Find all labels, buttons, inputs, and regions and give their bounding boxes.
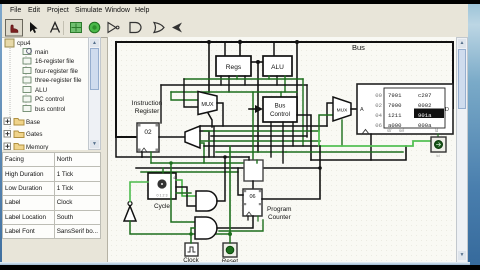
svg-text:0 1 2 3: 0 1 2 3 <box>157 194 168 198</box>
svg-text:str: str <box>387 128 392 133</box>
svg-text:04: 04 <box>375 112 382 119</box>
svg-text:ld: ld <box>436 153 439 158</box>
folder icons <box>14 119 24 151</box>
edit arrow <box>30 22 38 33</box>
wire: lower band <box>142 156 249 158</box>
and gate U15 <box>195 217 217 239</box>
mux U5 (left facing) <box>185 126 200 148</box>
cycle counter U12 <box>148 173 176 199</box>
svg-text:A: A <box>360 107 364 113</box>
wire: and1 output up <box>217 157 225 201</box>
wire: mux select <box>208 113 212 127</box>
wire: U10 top pins <box>248 157 250 160</box>
svg-text:D: D <box>445 107 449 113</box>
not gate U13 <box>124 202 136 222</box>
svg-text:7901: 7901 <box>388 92 402 99</box>
project icon cpu4 <box>5 39 14 47</box>
wire: ALU bottom pins <box>268 76 270 79</box>
expander boxes <box>4 118 11 150</box>
wire: mux U7 select <box>341 120 343 146</box>
wire: band verticals to gates <box>171 163 195 222</box>
wire: ram ld to button <box>437 134 439 137</box>
wire: cycle top pin <box>162 168 164 173</box>
svg-text:Bus: Bus <box>275 103 286 110</box>
wire: Regs bottom pins <box>220 76 222 85</box>
wire: bus to instruction register <box>116 42 137 137</box>
svg-text:7900: 7900 <box>388 102 402 109</box>
wire: bus control left input arrow <box>249 108 256 110</box>
counter U11 program counter <box>243 189 262 216</box>
wire: ram black loop bottom <box>311 146 406 160</box>
wire: bus tap to MUX U2 <box>208 42 210 92</box>
wire: mux select feed <box>213 127 215 157</box>
wire: IR bottom pins <box>141 152 143 157</box>
wire: left mux inputs <box>200 131 209 157</box>
xor gate icon <box>172 23 182 33</box>
circuit chip icons <box>23 49 31 112</box>
clock U16 <box>185 243 198 256</box>
wire: mux output <box>217 103 223 126</box>
svg-text:00: 00 <box>375 92 382 99</box>
wire: mux U7 inputs <box>327 103 333 126</box>
wire: green band y92 <box>171 91 297 93</box>
node junction <box>238 40 242 44</box>
wire: cycle outputs to gates <box>176 180 196 196</box>
wire: black band y85 <box>161 84 307 86</box>
svg-text:sel: sel <box>399 128 404 133</box>
node junction <box>295 40 299 44</box>
poke tool button (pressed) <box>6 20 23 37</box>
reset button U17 <box>223 243 237 257</box>
svg-text:06: 06 <box>249 194 255 200</box>
svg-text:MUX: MUX <box>201 102 214 108</box>
node junction <box>207 40 211 44</box>
wire: green vertical left of bus control <box>252 92 254 163</box>
svg-text:Control: Control <box>270 111 290 118</box>
wire: and2 output to counter <box>217 216 253 228</box>
wire: IR output to left mux <box>159 136 185 138</box>
wire: bus control bottom pins <box>270 122 272 157</box>
svg-text:06: 06 <box>375 122 382 129</box>
wire: dark green under ram <box>286 151 403 153</box>
svg-text:Bus: Bus <box>352 43 365 52</box>
wire: mux U7 output to RAM <box>351 108 357 110</box>
svg-text:901a: 901a <box>418 112 432 119</box>
svg-text:000a: 000a <box>418 122 432 129</box>
wire: counter bottom stubs <box>247 216 249 220</box>
wire: left rail continuation <box>116 137 142 157</box>
alu U3 <box>263 56 292 76</box>
ram U8 <box>357 84 453 134</box>
node junction <box>256 60 260 64</box>
register Regs <box>216 56 251 76</box>
wire: left bracket to counter <box>238 168 243 195</box>
svg-text:0002: 0002 <box>418 102 431 109</box>
separator <box>63 21 65 35</box>
mux U2 <box>198 92 217 115</box>
and gate U14 <box>196 191 217 211</box>
not gate icon <box>108 23 116 33</box>
wire: link down between boxes <box>257 62 259 152</box>
svg-text:02: 02 <box>375 102 382 109</box>
svg-text:Register: Register <box>135 108 160 115</box>
instruction register U4 <box>137 123 159 152</box>
wire: bus to Regs top pin2 <box>239 42 241 56</box>
wire: bright green to button <box>319 131 431 146</box>
wire: bus control right output <box>297 115 311 160</box>
wire: right loop to counter <box>262 146 320 199</box>
wire: central band <box>200 125 327 127</box>
wire: ram bottom pin down <box>370 134 372 160</box>
wire: not input loop <box>130 221 230 234</box>
wire: band verticals left <box>160 85 162 123</box>
svg-text:MUX: MUX <box>337 108 348 114</box>
or gate icon <box>154 23 164 33</box>
output pin icon <box>89 22 100 33</box>
wire: clock up <box>190 234 192 243</box>
wire: U10 to counter <box>252 181 254 189</box>
input pin icon <box>71 23 82 33</box>
wire: green band y79 <box>184 78 303 80</box>
svg-text:Cycle: Cycle <box>154 203 170 210</box>
register U10 above counter <box>244 160 263 181</box>
wire: long vertical x229 <box>229 146 231 234</box>
wire: Regs to ALU link <box>251 61 263 63</box>
wire: band verticals right <box>302 79 304 146</box>
svg-text:02: 02 <box>144 129 152 136</box>
wire: reset up <box>229 234 231 243</box>
mux U7 <box>333 97 351 121</box>
svg-text:c207: c207 <box>418 92 431 99</box>
wire: main bus top <box>116 42 453 108</box>
button U9 <box>431 137 446 158</box>
and gate icon <box>130 23 141 33</box>
wire: bus to Regs top pin1 <box>224 42 226 56</box>
svg-text:Counter: Counter <box>268 214 292 221</box>
svg-text:Instruction: Instruction <box>132 100 163 107</box>
svg-text:ALU: ALU <box>271 64 284 71</box>
wire: not output to cycle <box>130 182 148 202</box>
svg-text:Regs: Regs <box>226 64 242 71</box>
wire: bus tap down right of ALU <box>296 42 298 115</box>
svg-text:1211: 1211 <box>388 112 402 119</box>
bus control U6 <box>263 97 297 122</box>
svg-text:Program: Program <box>267 206 292 213</box>
text tool A <box>51 23 60 33</box>
wire: bus to ALU top <box>273 42 275 56</box>
